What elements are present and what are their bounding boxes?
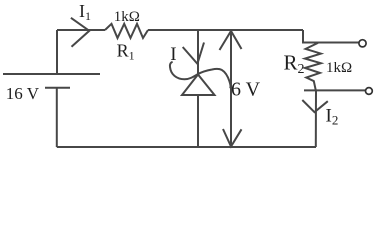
svg-text:I2: I2 (326, 106, 339, 128)
svg-text:R1: R1 (117, 40, 135, 62)
svg-text:1kΩ: 1kΩ (114, 9, 140, 25)
svg-text:6 V: 6 V (231, 79, 261, 101)
svg-text:I1: I1 (79, 1, 91, 23)
svg-text:1kΩ: 1kΩ (326, 60, 352, 76)
svg-text:I: I (170, 44, 176, 65)
svg-text:16 V: 16 V (6, 84, 40, 103)
svg-text:R2: R2 (284, 50, 305, 77)
